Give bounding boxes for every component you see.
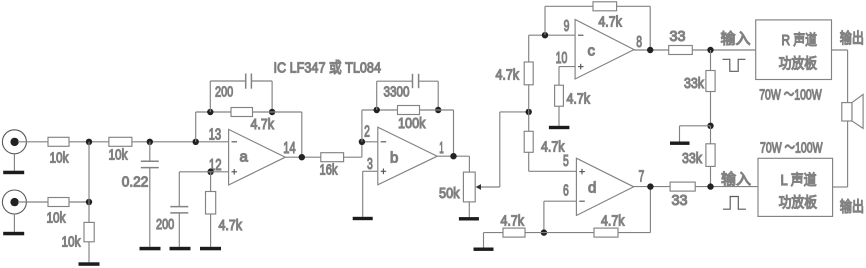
wire bbox=[69, 201, 89, 203]
wire bbox=[692, 49, 755, 51]
op-amp U1d bbox=[576, 158, 633, 215]
wire (pin2 fb link) bbox=[362, 110, 398, 142]
node (bottom row / vertical tie) bbox=[86, 199, 92, 205]
node (L input) bbox=[707, 183, 713, 189]
svg-text:16k: 16k bbox=[320, 163, 339, 179]
resistor 33k (upper) bbox=[684, 50, 715, 126]
resistor 4.7k (pin6 to ground) bbox=[484, 214, 544, 248]
op-amp U1c bbox=[575, 20, 634, 80]
node (pin6 tie) bbox=[541, 229, 547, 235]
node (junction top row / vertical tie) bbox=[86, 139, 92, 145]
ground (J1) bbox=[3, 154, 24, 174]
svg-text:4.7k: 4.7k bbox=[219, 218, 243, 234]
wire bbox=[132, 141, 229, 143]
svg-text:输入: 输入 bbox=[721, 30, 751, 47]
svg-text:4.7k: 4.7k bbox=[501, 214, 525, 230]
wire (pin9) bbox=[545, 34, 575, 36]
svg-text:8: 8 bbox=[636, 34, 642, 51]
waveform icon (L, pulse) bbox=[723, 197, 746, 210]
svg-text:输入: 输入 bbox=[721, 171, 751, 188]
resistor 4.7k (feedback U1a) bbox=[231, 108, 275, 134]
capacitor 0.22 bbox=[122, 142, 159, 247]
resistor 33k (lower) bbox=[682, 126, 715, 187]
RCA jack J2 (bottom input) bbox=[2, 190, 48, 214]
wire (pot bottom to ground) bbox=[468, 202, 470, 217]
wire (U1b out) bbox=[437, 156, 469, 172]
svg-text:10k: 10k bbox=[47, 211, 67, 227]
capacitor 3300 (feedback U1b) bbox=[377, 74, 439, 110]
node (out a) bbox=[299, 154, 305, 160]
ground (pin10) bbox=[549, 126, 570, 129]
resistor 33 (R series) bbox=[669, 29, 693, 55]
svg-text:9: 9 bbox=[564, 18, 570, 35]
node (fb right) bbox=[269, 109, 275, 115]
node (feedback tap, pin13 line) bbox=[193, 139, 199, 145]
ground (33k mid) bbox=[670, 126, 711, 145]
resistor 10k (top from J1) bbox=[48, 137, 69, 166]
svg-text:功放板: 功放板 bbox=[779, 194, 818, 212]
wire (U1d out) bbox=[634, 186, 670, 188]
svg-text:200: 200 bbox=[215, 85, 233, 101]
svg-text:0.22: 0.22 bbox=[122, 174, 149, 190]
svg-text:10k: 10k bbox=[62, 235, 82, 251]
node (chain mid) bbox=[526, 109, 532, 115]
amp board R bbox=[756, 20, 832, 80]
wire (fb b to output) bbox=[420, 110, 454, 156]
wire bbox=[695, 186, 758, 188]
svg-text:4.7k: 4.7k bbox=[251, 117, 275, 133]
svg-text:输出: 输出 bbox=[840, 30, 864, 47]
svg-text:33: 33 bbox=[672, 193, 688, 209]
svg-text:c: c bbox=[588, 43, 596, 60]
resistor 4.7k (feedback U1c) bbox=[545, 2, 650, 50]
resistor 4.7k (pin12 to ground) bbox=[206, 172, 243, 247]
wire (R out to speaker) bbox=[832, 50, 848, 103]
wire (16k to pin2) bbox=[344, 142, 378, 157]
node (R input) bbox=[707, 47, 713, 53]
svg-text:IC LF347 或 TL084: IC LF347 或 TL084 bbox=[274, 60, 382, 77]
resistor 4.7k (chain to pin5) bbox=[524, 112, 576, 171]
wire (fb to output) bbox=[253, 112, 302, 157]
ground (0.22) bbox=[140, 247, 161, 251]
wire (pin12 row) bbox=[179, 171, 228, 173]
svg-text:功放板: 功放板 bbox=[779, 54, 818, 72]
svg-text:4.7k: 4.7k bbox=[567, 92, 591, 108]
node (fb b left) bbox=[374, 107, 380, 113]
svg-text:100k: 100k bbox=[398, 116, 426, 132]
resistor 10k (bottom from J2) bbox=[47, 198, 70, 227]
node (pin2) bbox=[359, 139, 365, 145]
resistor 100k (feedback U1b) bbox=[398, 106, 427, 133]
node (out c) bbox=[647, 47, 653, 53]
svg-text:4.7k: 4.7k bbox=[598, 14, 622, 30]
svg-text:70W ～100W: 70W ～100W bbox=[759, 88, 822, 104]
op-amp U1b bbox=[378, 127, 437, 185]
ground (pin3) bbox=[353, 217, 373, 220]
ground (4.7k pin12) bbox=[200, 247, 221, 251]
potentiometer 50k bbox=[439, 172, 500, 202]
waveform icon (R, inverted pulse) bbox=[723, 59, 746, 71]
wire bbox=[69, 141, 109, 143]
svg-text:2: 2 bbox=[364, 124, 370, 141]
ground (J2) bbox=[3, 214, 24, 235]
svg-text:10k: 10k bbox=[50, 151, 70, 167]
svg-text:4.7k: 4.7k bbox=[601, 214, 625, 230]
node (pin12 tie) bbox=[207, 169, 213, 175]
svg-text:1: 1 bbox=[439, 140, 444, 157]
svg-text:R 声道: R 声道 bbox=[782, 31, 818, 49]
amp board L bbox=[758, 158, 833, 216]
speaker bbox=[842, 94, 863, 128]
op-amp U1a bbox=[229, 129, 286, 185]
svg-text:33k: 33k bbox=[684, 76, 705, 92]
capacitor 200 (feedback U1a) bbox=[210, 74, 272, 113]
wire (U1a out) bbox=[285, 156, 321, 158]
ground (200 cap) bbox=[170, 247, 191, 251]
svg-text:70W ～100W: 70W ～100W bbox=[760, 141, 823, 157]
svg-text:200: 200 bbox=[156, 217, 174, 233]
svg-text:14: 14 bbox=[283, 140, 295, 157]
node (fb b right) bbox=[435, 107, 441, 113]
node (out d) bbox=[647, 183, 653, 189]
svg-text:7: 7 bbox=[639, 169, 645, 186]
svg-text:50k: 50k bbox=[439, 186, 460, 202]
ground (pot) bbox=[459, 217, 479, 220]
svg-text:d: d bbox=[588, 180, 596, 197]
svg-text:a: a bbox=[240, 149, 249, 166]
node (fb left) bbox=[207, 109, 213, 115]
resistor 4.7k (chain to pin9) bbox=[496, 35, 546, 112]
resistor 16k bbox=[320, 153, 344, 179]
node (33k mid) bbox=[707, 123, 713, 129]
svg-text:3: 3 bbox=[367, 156, 373, 173]
resistor 33 (L series) bbox=[670, 182, 695, 209]
ground (pin6 4.7k) bbox=[474, 248, 494, 251]
svg-text:4.7k: 4.7k bbox=[496, 68, 520, 84]
resistor 4.7k (pin10 to ground) bbox=[555, 67, 591, 126]
svg-text:33: 33 bbox=[670, 29, 686, 45]
wire (pin3 to ground) bbox=[363, 171, 378, 217]
svg-text:b: b bbox=[390, 150, 398, 167]
svg-text:5: 5 bbox=[563, 153, 569, 170]
ground (10k vertical) bbox=[79, 262, 100, 266]
wire (pin6) bbox=[544, 201, 577, 232]
node (pin9) bbox=[542, 32, 548, 38]
resistor 10k (second, top row) bbox=[109, 137, 132, 163]
svg-text:输出: 输出 bbox=[840, 198, 865, 215]
wire (fb tap down-link) bbox=[196, 112, 231, 142]
wire (vertical tie between rows) bbox=[88, 142, 90, 202]
svg-text:10: 10 bbox=[556, 50, 568, 67]
resistor 4.7k (fb U1d) bbox=[544, 187, 651, 238]
node (out b) bbox=[450, 153, 456, 159]
svg-text:13: 13 bbox=[209, 127, 222, 144]
resistor 10k (vertical to ground) bbox=[62, 202, 95, 262]
svg-text:6: 6 bbox=[563, 183, 569, 200]
svg-text:10k: 10k bbox=[109, 148, 129, 164]
capacitor 200 (input, to ground) bbox=[156, 172, 188, 247]
svg-text:L 声道: L 声道 bbox=[781, 171, 817, 189]
RCA jack J1 (top input) bbox=[2, 130, 48, 154]
wire (speaker to L out) bbox=[833, 121, 848, 187]
node (0.22 cap tap) bbox=[147, 139, 153, 145]
svg-text:3300: 3300 bbox=[384, 85, 410, 101]
svg-text:33k: 33k bbox=[682, 151, 703, 167]
wire (U1c out) bbox=[634, 49, 669, 51]
wire (wiper riser) bbox=[500, 112, 529, 187]
svg-text:4.7k: 4.7k bbox=[541, 140, 565, 156]
